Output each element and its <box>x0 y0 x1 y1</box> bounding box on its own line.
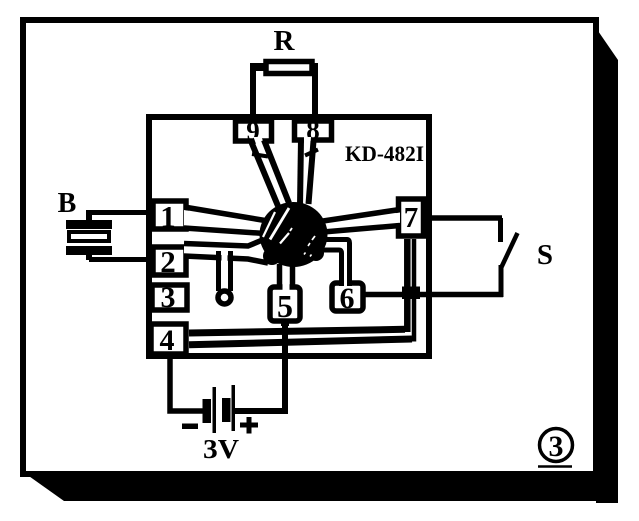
bond wire pad5 to die <box>280 264 293 290</box>
earphone B top wire <box>89 210 151 215</box>
earphone B top plate <box>66 220 112 229</box>
svg-text:7: 7 <box>404 202 419 234</box>
svg-text:3: 3 <box>161 281 176 314</box>
battery plates <box>203 399 212 423</box>
label plus <box>240 423 258 428</box>
pad 6 <box>332 282 363 315</box>
svg-text:4: 4 <box>160 324 175 357</box>
pad 7 <box>399 199 424 236</box>
switch S bottom stub <box>499 265 504 297</box>
svg-text:R: R <box>274 25 296 57</box>
frame drop shadow bottom <box>26 474 618 501</box>
die blob <box>260 202 328 267</box>
figure number 3 circled <box>538 429 573 467</box>
pad 1 <box>153 199 186 234</box>
svg-text:5: 5 <box>277 288 293 324</box>
pad 8 <box>295 115 332 145</box>
bond wire pad2 to die <box>184 239 268 264</box>
resistor R body <box>266 62 312 74</box>
pad 4 <box>151 324 186 357</box>
bond wire pad7 to die <box>323 210 400 233</box>
pad 5 <box>270 287 300 324</box>
pad5 lead down <box>281 322 289 326</box>
pad2 stub trace with ring <box>218 249 231 305</box>
label minus <box>182 424 198 430</box>
junction blob at trace crossing <box>402 287 420 300</box>
battery left wire from pad 4 <box>170 355 205 411</box>
earphone B bottom plate <box>66 246 112 255</box>
tick on pad9 wire <box>252 154 268 157</box>
bond wire pad9 to die <box>251 137 290 207</box>
switch S top wire from pad 7 <box>426 215 502 221</box>
IC module outline box <box>149 117 429 356</box>
wire pad 6 to switch <box>365 292 503 298</box>
pad 9 <box>236 116 272 146</box>
tick on pad8 wire <box>305 150 318 156</box>
svg-text:2: 2 <box>160 244 176 279</box>
frame drop shadow right <box>596 28 618 503</box>
svg-text:KD-482I: KD-482I <box>345 141 424 166</box>
trace pad4 to pad7 (hollow double line) <box>189 329 405 333</box>
bond wire pad1 to die <box>184 207 265 234</box>
pad 3 <box>152 281 187 314</box>
svg-text:S: S <box>537 239 553 271</box>
battery right wire to pad 5 <box>235 322 285 411</box>
switch S lever <box>502 233 518 267</box>
resistor R leads <box>250 63 256 118</box>
bond wire pad8 to die <box>300 137 314 206</box>
svg-text:1: 1 <box>160 199 176 234</box>
svg-text:B: B <box>58 188 77 219</box>
figure border frame <box>23 20 596 474</box>
earphone B coil <box>69 232 109 241</box>
svg-text:3: 3 <box>549 430 564 463</box>
earphone B bottom wire <box>86 253 92 260</box>
svg-text:3V: 3V <box>203 434 240 464</box>
bond wire pad6 to die (L shape) <box>320 240 350 288</box>
die hatch marks <box>263 212 275 237</box>
pad 2 <box>153 244 186 279</box>
